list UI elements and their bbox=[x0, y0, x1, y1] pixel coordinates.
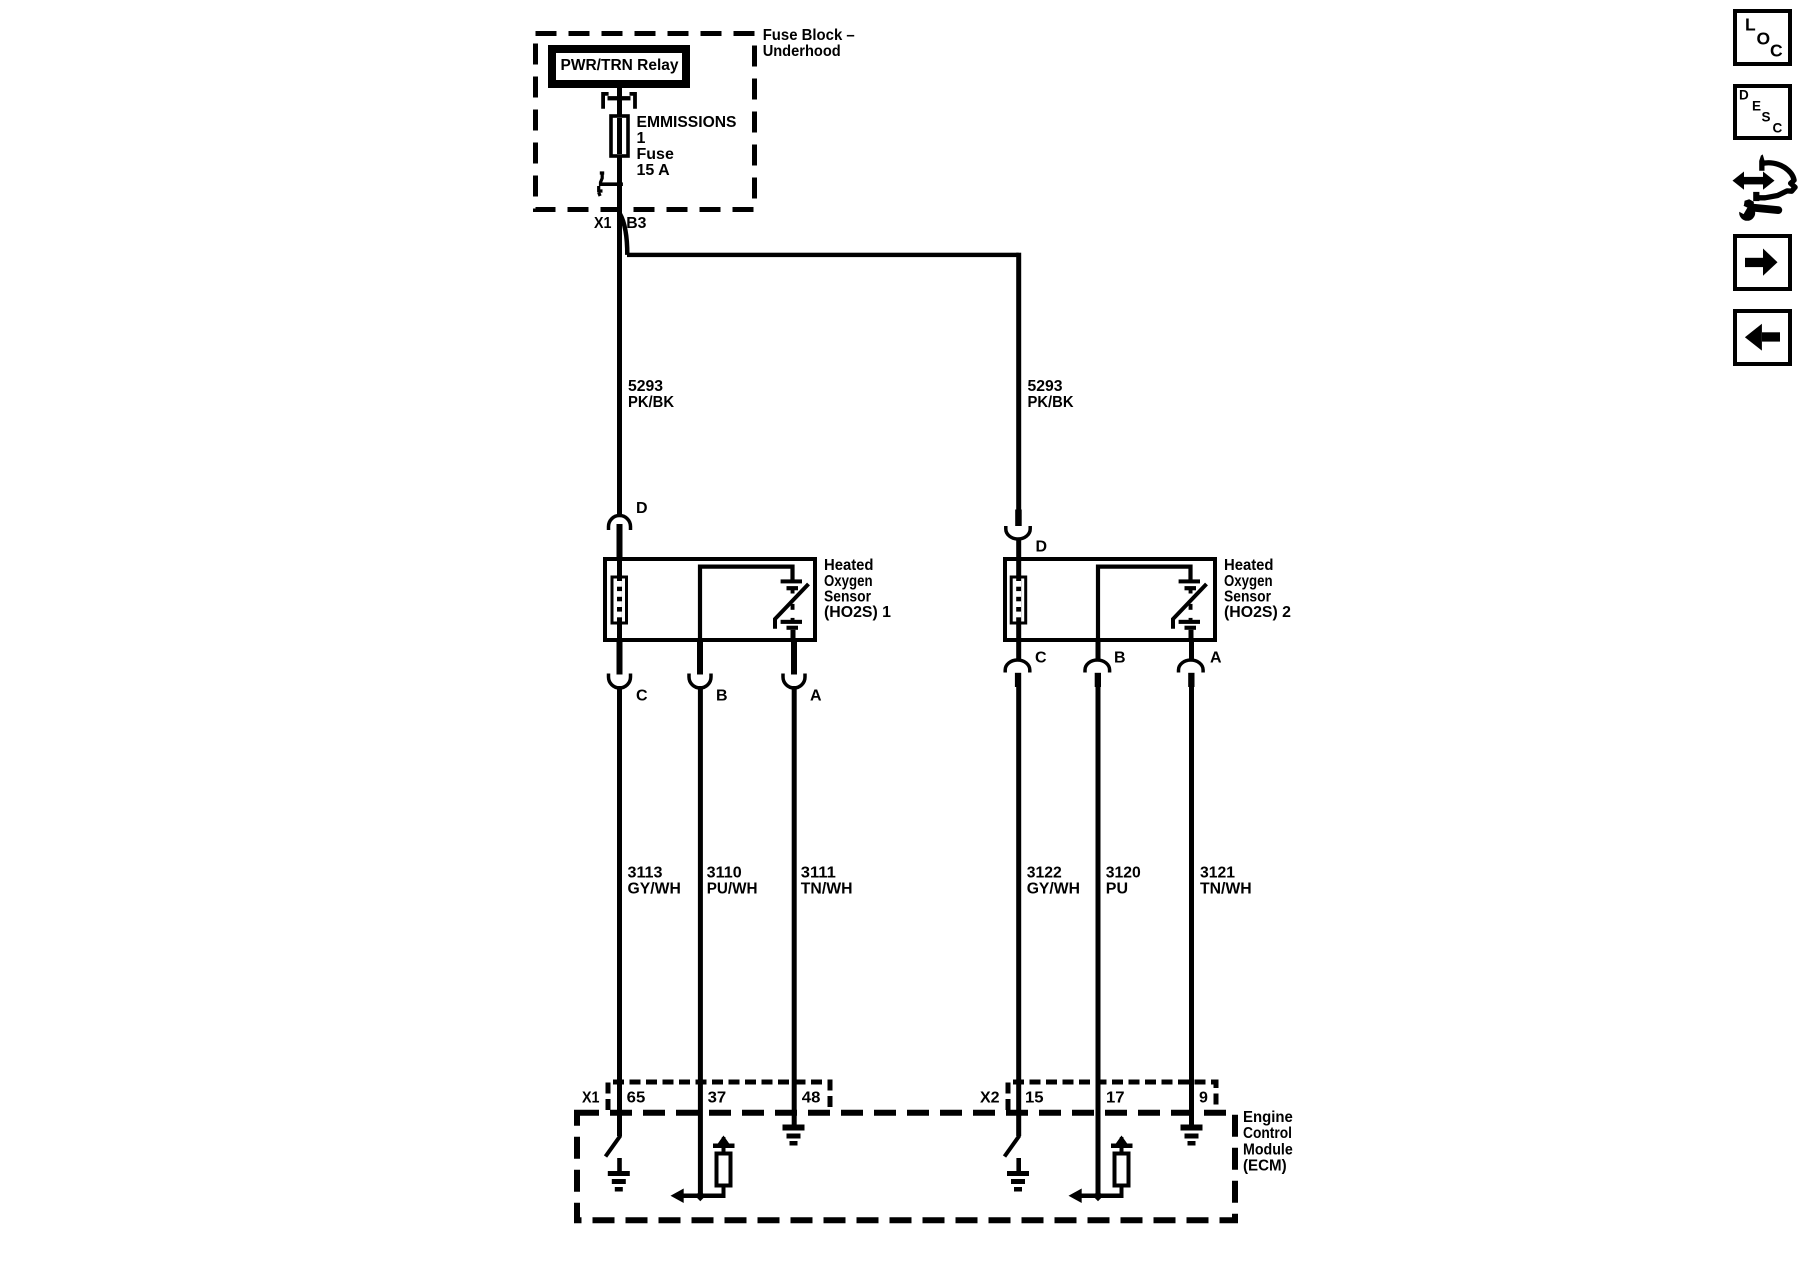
wire branch curve at X1 B3 bbox=[620, 214, 627, 255]
svg-text:PK/BK: PK/BK bbox=[628, 394, 674, 411]
svg-text:X2: X2 bbox=[980, 1090, 1000, 1107]
svg-text:(ECM): (ECM) bbox=[1243, 1158, 1287, 1175]
pin A1 female cup bbox=[783, 674, 805, 689]
wire pin 17 into ECM bbox=[1096, 1112, 1101, 1198]
svg-text:PWR/TRN Relay: PWR/TRN Relay bbox=[561, 57, 679, 74]
wire pin 65 into ECM bbox=[617, 1112, 622, 1136]
heater element 1 bbox=[616, 581, 622, 587]
sensor cell 1 (variable battery) bbox=[781, 579, 802, 583]
svg-text:5293: 5293 bbox=[1028, 378, 1063, 395]
icon wrench tail piece bbox=[1753, 192, 1759, 201]
pin B1 male stub bbox=[697, 642, 703, 675]
svg-text:Oxygen: Oxygen bbox=[1224, 573, 1273, 590]
resistor R2 bbox=[1120, 1148, 1124, 1155]
pin A2 male stub bbox=[1188, 673, 1194, 687]
wire sensor2 to box bottom bbox=[1189, 630, 1194, 642]
resistor R1 reference arrow up bbox=[722, 1137, 726, 1147]
svg-text:C: C bbox=[1770, 41, 1783, 61]
svg-text:GY/WH: GY/WH bbox=[628, 880, 681, 897]
clip terminal symbol bbox=[600, 173, 604, 183]
svg-text:B: B bbox=[716, 688, 728, 705]
fuse block underhood dashed box bbox=[536, 34, 755, 210]
svg-text:Fuse Block –: Fuse Block – bbox=[763, 27, 855, 44]
svg-text:PU/WH: PU/WH bbox=[707, 880, 758, 897]
pin C2 female dome bbox=[1005, 660, 1030, 673]
svg-text:TN/WH: TN/WH bbox=[801, 880, 853, 897]
wire B1 inner bbox=[700, 567, 793, 644]
junction dot pin 37 bbox=[695, 1191, 705, 1202]
svg-text:EMMISSIONS: EMMISSIONS bbox=[637, 114, 737, 131]
wire pin 15 into ECM bbox=[1016, 1112, 1021, 1136]
icon wrench spanner bbox=[1739, 205, 1755, 221]
svg-text:C: C bbox=[1773, 121, 1783, 136]
svg-text:D: D bbox=[636, 500, 648, 517]
wire R1 horizontal with arrow bbox=[681, 1194, 726, 1199]
svg-text:Sensor: Sensor bbox=[1224, 589, 1271, 606]
svg-text:1: 1 bbox=[637, 130, 646, 147]
svg-text:15: 15 bbox=[1025, 1090, 1044, 1107]
pin B2 wire stub bbox=[1096, 642, 1101, 661]
connector D2 male pin bbox=[1015, 510, 1022, 527]
wire sensor1 to box bottom bbox=[791, 630, 796, 642]
ECM dashed box bbox=[577, 1113, 1235, 1221]
heater element 2 bbox=[1015, 581, 1021, 587]
relay K PWR/TRN Relay bbox=[552, 49, 686, 84]
wire through heater 1 bbox=[617, 559, 622, 642]
sensor diagonal arrow 1 bbox=[775, 584, 809, 629]
icon wrench outline arrow bbox=[1759, 154, 1764, 170]
wire 3110 bbox=[698, 686, 703, 1112]
svg-text:37: 37 bbox=[708, 1090, 727, 1107]
pin B2 male stub bbox=[1095, 673, 1101, 687]
svg-text:3122: 3122 bbox=[1027, 864, 1062, 881]
svg-text:Underhood: Underhood bbox=[763, 43, 841, 60]
junction dot pin 17 bbox=[1093, 1191, 1103, 1202]
wire B2 inner bbox=[1098, 567, 1191, 644]
HO2S 2 box bbox=[1005, 559, 1215, 640]
pin C2 male stub bbox=[1015, 673, 1021, 687]
svg-text:D: D bbox=[1739, 88, 1749, 103]
connector D2 female cup bbox=[1006, 526, 1030, 539]
svg-text:Fuse: Fuse bbox=[637, 146, 674, 163]
icon LOC box bbox=[1735, 11, 1790, 64]
ground G3 stub bbox=[1016, 1158, 1021, 1171]
fuse F EMMISSIONS 1 15A bbox=[611, 116, 628, 156]
icon arrow left box bbox=[1735, 311, 1790, 364]
pin C1 male stub bbox=[617, 642, 623, 675]
HO2S 1 box bbox=[605, 559, 815, 640]
pin B2 female dome bbox=[1085, 660, 1110, 673]
relay contact terminal brackets bbox=[603, 94, 609, 109]
svg-text:C: C bbox=[1035, 650, 1047, 667]
svg-text:(HO2S) 1: (HO2S) 1 bbox=[824, 604, 891, 621]
wire 3121 bbox=[1189, 687, 1194, 1112]
svg-text:48: 48 bbox=[802, 1090, 821, 1107]
svg-text:PU: PU bbox=[1106, 880, 1128, 897]
svg-text:17: 17 bbox=[1106, 1090, 1125, 1107]
icon arrow right box bbox=[1735, 236, 1790, 289]
svg-text:Engine: Engine bbox=[1243, 1109, 1293, 1126]
sensor diagonal arrow 2 bbox=[1173, 584, 1207, 629]
wire main vertical 5293 left bbox=[617, 212, 622, 514]
svg-text:S: S bbox=[1762, 110, 1771, 125]
svg-text:X1: X1 bbox=[582, 1090, 600, 1107]
connector D1 female dome bbox=[609, 516, 631, 531]
svg-text:X1: X1 bbox=[594, 215, 612, 232]
svg-text:Module: Module bbox=[1243, 1141, 1293, 1158]
wire 3113 bbox=[617, 686, 622, 1112]
svg-text:Oxygen: Oxygen bbox=[824, 573, 873, 590]
wire fuse to clip bbox=[617, 156, 622, 212]
ground G1 stub bbox=[617, 1158, 622, 1171]
pin C2 wire stub bbox=[1016, 642, 1021, 661]
svg-text:5293: 5293 bbox=[628, 378, 663, 395]
wire pin 9 into ECM bbox=[1189, 1112, 1194, 1126]
svg-text:Control: Control bbox=[1243, 1125, 1292, 1142]
svg-text:Heated: Heated bbox=[824, 557, 874, 574]
ground G4 bars bbox=[1181, 1125, 1203, 1131]
svg-text:3113: 3113 bbox=[628, 864, 663, 881]
svg-text:15 A: 15 A bbox=[637, 162, 671, 179]
svg-text:3111: 3111 bbox=[801, 864, 836, 881]
svg-text:(HO2S) 2: (HO2S) 2 bbox=[1224, 604, 1291, 621]
svg-text:E: E bbox=[1752, 98, 1761, 113]
ground G2 bars bbox=[783, 1125, 805, 1131]
sensor cell 2 (variable battery) bbox=[1179, 579, 1200, 583]
svg-text:B: B bbox=[1114, 650, 1126, 667]
svg-text:O: O bbox=[1757, 29, 1771, 49]
svg-text:A: A bbox=[810, 688, 822, 705]
svg-text:B3: B3 bbox=[626, 215, 646, 232]
resistor R2 reference arrow up bbox=[1120, 1137, 1124, 1147]
svg-text:3120: 3120 bbox=[1106, 864, 1141, 881]
svg-text:TN/WH: TN/WH bbox=[1200, 880, 1252, 897]
resistor R1 bbox=[722, 1148, 726, 1155]
svg-text:Sensor: Sensor bbox=[824, 589, 871, 606]
svg-text:9: 9 bbox=[1199, 1090, 1208, 1107]
wire pin 48 into ECM bbox=[792, 1112, 797, 1126]
wire D2 to box bbox=[1016, 538, 1021, 559]
switch S2 blade bbox=[1005, 1136, 1020, 1157]
pin C1 female cup bbox=[609, 674, 631, 689]
wire branch horizontal bbox=[627, 253, 1019, 257]
wire 3122 bbox=[1016, 687, 1021, 1112]
svg-text:PK/BK: PK/BK bbox=[1028, 394, 1074, 411]
wire 3120 bbox=[1096, 687, 1101, 1112]
ground G3 bars bbox=[1007, 1171, 1029, 1176]
icon DESC box bbox=[1735, 86, 1790, 138]
wire 3111 bbox=[792, 686, 797, 1112]
ECM connector strip X1 bbox=[608, 1082, 830, 1110]
svg-text:3121: 3121 bbox=[1200, 864, 1235, 881]
ECM connector strip X2 bbox=[1008, 1082, 1216, 1110]
svg-text:3110: 3110 bbox=[707, 864, 742, 881]
svg-text:65: 65 bbox=[627, 1090, 646, 1107]
connector D1 male pin bbox=[617, 524, 623, 557]
wire relay to fuse bbox=[617, 88, 622, 115]
pin B1 female cup bbox=[689, 674, 711, 689]
pin A2 female dome bbox=[1179, 660, 1204, 673]
pin A2 wire stub bbox=[1189, 642, 1194, 661]
wire branch vertical right 5293 bbox=[1016, 253, 1021, 511]
svg-text:L: L bbox=[1745, 15, 1756, 35]
pin A1 male stub bbox=[791, 642, 797, 675]
svg-text:C: C bbox=[636, 688, 648, 705]
wire R2 horizontal with arrow bbox=[1079, 1194, 1124, 1199]
svg-text:D: D bbox=[1036, 539, 1048, 556]
svg-text:A: A bbox=[1210, 650, 1222, 667]
ground G1 bars bbox=[608, 1171, 630, 1176]
wire through heater 2 bbox=[1016, 559, 1021, 642]
svg-text:GY/WH: GY/WH bbox=[1027, 880, 1080, 897]
wire pin 37 into ECM bbox=[698, 1112, 703, 1198]
icon wrench double arrow bbox=[1741, 177, 1766, 185]
switch S1 blade bbox=[606, 1136, 621, 1157]
svg-text:Heated: Heated bbox=[1224, 557, 1274, 574]
